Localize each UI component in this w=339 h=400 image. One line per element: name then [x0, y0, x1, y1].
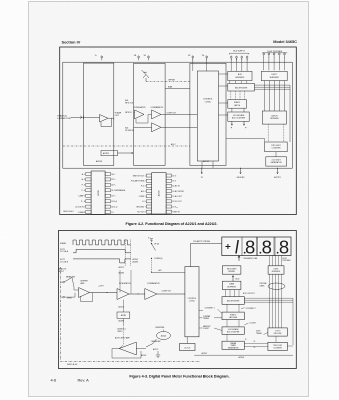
svg-text:BCD: BCD [236, 278, 240, 280]
display digit 1 [236, 240, 238, 254]
svg-text:Section IV: Section IV [62, 39, 81, 44]
svg-text:CONTENT 1: CONTENT 1 [205, 307, 215, 309]
svg-text:OUT: OUT [115, 115, 120, 117]
svg-text:9 C: 9 C [111, 212, 114, 214]
svg-text:16 V₊: 16 V₊ [172, 175, 177, 177]
A22U1 pin 7 left [86, 205, 91, 208]
svg-text:10 Vₐₐₑ: 10 Vₐₐₑ [172, 206, 178, 208]
two digit counter block fig4-3 [268, 342, 287, 350]
IC block A22U2 digital outline [190, 63, 226, 165]
svg-text:INPUT: INPUT [58, 271, 65, 273]
svg-text:+LOFT: +LOFT [98, 285, 105, 287]
wire comparator2 output [161, 126, 197, 128]
svg-text:GROUND: GROUND [237, 177, 246, 179]
A22U1 pin 13 right [105, 189, 110, 192]
wires digit buffers to latch drivers [264, 81, 266, 111]
svg-text:MULTIPLEXER: MULTIPLEXER [235, 87, 248, 89]
svg-text:BCD COUNTER: BCD COUNTER [232, 117, 246, 119]
svg-text:FILTER IN: FILTER IN [125, 130, 134, 132]
svg-text:15 P₃: 15 P₃ [111, 179, 116, 181]
svg-text:DIGIT STROBES: DIGIT STROBES [267, 51, 282, 53]
digit strobe pin 4 [278, 51, 280, 54]
A22U2 pin 2 left [146, 179, 151, 182]
A22U2 pin 13 right [166, 190, 171, 193]
decade counter block fig4-3 [222, 327, 244, 334]
svg-text:12 P₇: 12 P₇ [111, 196, 116, 198]
display polarity plus sign [225, 244, 230, 249]
svg-text:AUTO ZERO AMP: AUTO ZERO AMP [115, 337, 131, 340]
display decimal point 1 [244, 252, 246, 254]
digit strobe pin 5 [284, 51, 286, 54]
svg-text:LINES: LINES [260, 285, 266, 287]
two digit counter block [265, 142, 288, 152]
svg-text:A/D C: A/D C [171, 143, 176, 146]
wire override to Q4 [163, 330, 165, 332]
figure 4-3 frame [59, 231, 297, 369]
digit strobe pin 1 [263, 51, 265, 54]
IC block A22U2 analog outline [134, 63, 166, 165]
svg-text:φ: φ [245, 127, 247, 129]
svg-text:TIMING: TIMING [256, 333, 263, 335]
svg-text:BCD SUPPLY: BCD SUPPLY [233, 50, 246, 52]
wire digit timing [264, 333, 268, 335]
data buffers block [222, 281, 241, 289]
svg-text:P₁₂ 6: P₁₂ 6 [81, 201, 85, 203]
svg-text:A22U2: A22U2 [202, 352, 208, 355]
wire buffer to integrator [90, 292, 118, 294]
svg-text:LOGIC: LOGIC [205, 101, 212, 103]
figure 4-2 frame [60, 47, 297, 215]
svg-text:A/D: A/D [159, 269, 163, 272]
wire flash input [71, 116, 100, 118]
decoder driver block [222, 266, 241, 274]
A22U2 pin 16 right [166, 174, 171, 177]
svg-text:FLASH: FLASH [60, 242, 67, 245]
wire right edge vertical [289, 85, 291, 142]
wire decoder to counter [275, 336, 277, 342]
svg-text:VB: VB [134, 55, 137, 57]
A22U1 pin 6 left [86, 200, 91, 203]
terminal COMM(3) [151, 258, 152, 259]
wire from A22R3 to A22U2 [118, 152, 134, 154]
display digit cell separators [241, 237, 243, 256]
svg-text:7 SEGMENT LINE: 7 SEGMENT LINE [243, 258, 259, 260]
svg-text:VG: VG [202, 55, 205, 57]
svg-text:POLARITY STROBE: POLARITY STROBE [193, 240, 211, 243]
component A22R5 box [117, 312, 130, 318]
svg-text:ZERO: ZERO [118, 331, 124, 333]
svg-text:A22U5: A22U5 [133, 258, 139, 261]
A22U2 pin 15 right [166, 179, 171, 182]
svg-text:COMPARATOR: COMPARATOR [147, 282, 160, 285]
svg-text:DECODE: DECODE [274, 333, 282, 335]
svg-text:1-10 DECADE: 1-10 DECADE [233, 114, 245, 117]
svg-text:Figure 4-3. Digital Panel Met: Figure 4-3. Digital Panel Meter Function… [129, 374, 229, 378]
wire phi lines [244, 343, 268, 345]
BCD supply pin 1 [230, 55, 232, 58]
A22U1 pin 1 left [86, 172, 91, 175]
svg-text:SWITCH OUT 1: SWITCH OUT 1 [133, 175, 146, 177]
A22U1 pin 11 right [105, 200, 110, 203]
A22U2 pin 6 left [146, 200, 151, 203]
svg-text:CONTENT 2: CONTENT 2 [246, 308, 256, 310]
svg-text:14 A 1 IN: 14 A 1 IN [172, 185, 180, 188]
svg-text:INTEGRATOR: INTEGRATOR [119, 282, 131, 285]
BCD supply pin 2 [236, 55, 238, 58]
terminal UP(2) [151, 243, 152, 244]
wire comparator1 output to control logic [161, 113, 197, 115]
bus stub ground [240, 168, 241, 169]
static latches block [222, 312, 244, 320]
svg-text:9 BST IN: 9 BST IN [172, 211, 180, 213]
svg-text:TIMING: TIMING [203, 318, 210, 320]
svg-text:LOGIC: LOGIC [189, 301, 195, 303]
wire control to two digit counter [226, 139, 265, 142]
svg-text:POLARITY BRK 2: POLARITY BRK 2 [131, 180, 146, 183]
A22U1 pin 14 right [105, 183, 110, 186]
wires BCD buffers to multiplexer [229, 81, 231, 84]
svg-text:STATIC: STATIC [230, 313, 237, 316]
A22U1 pin 12 right [105, 194, 110, 197]
svg-text:12 A-C OUT: 12 A-C OUT [172, 195, 183, 198]
svg-text:COMM (3): COMM (3) [154, 258, 163, 260]
A22U1 pin 8 left [86, 211, 91, 214]
pin VSS of control [192, 54, 194, 57]
svg-text:COMP OUT: COMP OUT [167, 112, 178, 114]
switch blade REF [152, 244, 156, 251]
A22U2 pin 11 right [166, 200, 171, 203]
svg-text:TO: TO [201, 177, 204, 179]
wire LO to zero switch [64, 296, 75, 298]
svg-text:14 P₅: 14 P₅ [111, 185, 116, 187]
A22U1 pin 15 right [105, 178, 110, 181]
op-amp comparator 2 [152, 123, 162, 132]
wires latch drivers to two digit counter [267, 124, 269, 142]
digit buffers block fig4-3 [268, 266, 284, 274]
svg-text:A-D 4: A-D 4 [141, 190, 146, 193]
IC package A22U2 body [152, 173, 166, 214]
svg-text:8: 8 [279, 236, 289, 257]
svg-text:8: 8 [262, 236, 272, 257]
svg-text:MEASURE: MEASURE [152, 340, 162, 343]
svg-text:VS: VS [188, 55, 191, 57]
A22U2 pin 7 left [146, 205, 151, 208]
svg-text:MPX IN: MPX IN [125, 112, 132, 114]
decade counter block [228, 112, 249, 121]
A22U2 pin 4 left [146, 190, 151, 193]
wire flash output to A22U2 [108, 117, 114, 119]
svg-text:φ₂: φ₂ [254, 347, 256, 349]
svg-text:DISPLAY TEST: DISPLAY TEST [58, 117, 73, 120]
A22U2 pin 8 left [146, 210, 151, 213]
wire polarity strobe [191, 243, 222, 266]
svg-text:A₁ 1: A₁ 1 [82, 173, 85, 176]
wires multiplexer to static latch [230, 91, 232, 100]
svg-text:MULTIPLEXER: MULTIPLEXER [227, 300, 240, 302]
auto zero feedback loop [112, 349, 141, 359]
svg-text:CONTROL: CONTROL [203, 99, 214, 101]
svg-text:A22U1: A22U1 [96, 160, 103, 163]
wire BCD arrow [232, 276, 234, 282]
svg-text:INTEGRATOR: INTEGRATOR [134, 106, 146, 109]
strobe lines oval [268, 283, 285, 289]
A22U1 pin 5 left [86, 194, 91, 197]
svg-text:CLOCK: CLOCK [184, 347, 191, 349]
svg-text:LATCH: LATCH [271, 114, 278, 117]
buffer feedback loop [81, 293, 93, 302]
display decimal point 2 [260, 252, 262, 254]
svg-text:A22U6: A22U6 [239, 356, 245, 359]
svg-text:DRIVER: DRIVER [228, 271, 235, 273]
digit buffers block [261, 71, 287, 80]
svg-text:A22C3: A22C3 [119, 306, 125, 309]
A22U1 pin 4 left [86, 189, 91, 192]
svg-text:A22Q4: A22Q4 [161, 334, 166, 337]
pin VDD of A22U2 [148, 54, 150, 57]
svg-text:A₂ 2: A₂ 2 [82, 178, 85, 181]
svg-text:RC OUT 8: RC OUT 8 [137, 211, 145, 213]
svg-text:P+2 3: P+2 3 [141, 186, 146, 188]
resistor A22R3 box in U1 bottom [101, 151, 118, 156]
wire compar timing [199, 317, 203, 319]
svg-text:BUFFERS: BUFFERS [272, 271, 281, 273]
svg-text:4-6: 4-6 [51, 378, 57, 383]
A22U2 pin 14 right [166, 184, 171, 187]
svg-text:COMM 8: COMM 8 [78, 212, 85, 214]
bus stub +5V [201, 168, 202, 169]
wire integrator to auto zero [122, 325, 124, 345]
svg-text:BUFFERS: BUFFERS [270, 77, 280, 79]
wire integrator lower network [122, 300, 124, 313]
svg-text:BIAS: BIAS [168, 86, 173, 89]
wires latches to counter [226, 320, 228, 327]
wire control logic to static latch [219, 102, 228, 104]
A22U2 pin 10 right [166, 205, 171, 208]
svg-text:UP (2): UP (2) [154, 243, 160, 245]
wire memory count [199, 327, 203, 329]
wire comm down to A/D node [151, 258, 153, 272]
svg-text:φ₁: φ₁ [245, 338, 247, 340]
svg-text:GENERATOR: GENERATOR [270, 161, 282, 164]
pin VGG of control [206, 54, 208, 57]
wire bias line [165, 88, 190, 90]
strobe bus vertical wires [269, 274, 271, 328]
svg-text:STATIC: STATIC [234, 101, 241, 104]
waveform DUTY CYCLE A trace [73, 249, 131, 253]
svg-text:ZERO: ZERO [67, 298, 73, 300]
wire A/D to control [152, 271, 185, 273]
feedback loop of U1A [101, 118, 112, 126]
wire auto zero to measure switch [136, 348, 146, 350]
svg-text:COUNTER: COUNTER [272, 148, 282, 150]
svg-text:Model 3465C: Model 3465C [273, 39, 297, 44]
multiplexer block fig4-3 [222, 297, 244, 305]
svg-text:V₂ 6: V₂ 6 [142, 201, 145, 203]
A22U1 pin 9 right [105, 211, 110, 214]
svg-text:DRIVERS: DRIVERS [270, 118, 279, 120]
terminal LO [63, 296, 65, 298]
svg-text:BUFFERS: BUFFERS [235, 77, 245, 79]
wire 7 segment line arrow [238, 256, 240, 261]
wire integrator input [133, 112, 136, 114]
svg-text:3465C-B-4-2: 3465C-B-4-2 [63, 211, 73, 213]
svg-text:V+: V+ [95, 55, 97, 57]
svg-text:A22R4: A22R4 [119, 272, 125, 275]
svg-text:LATCHES: LATCHES [229, 316, 238, 319]
svg-text:CYCLE A: CYCLE A [60, 250, 69, 253]
svg-text:A22R3: A22R3 [103, 152, 109, 155]
static latch block [228, 100, 247, 109]
pin V+ of A22U1 [101, 54, 103, 57]
flash oscillator op-amp U1A [100, 115, 109, 123]
A22U1 pin 10 right [105, 205, 110, 208]
wire comparator out to control logic [157, 293, 185, 295]
A22U1 pin 16 right [105, 172, 110, 175]
A22U2 pin 3 left [146, 184, 151, 187]
svg-text:Rev. A: Rev. A [78, 378, 90, 383]
timing generator block [222, 341, 244, 349]
svg-text:STROBES: STROBES [282, 260, 291, 262]
svg-text:A22C2: A22C2 [119, 266, 125, 269]
display decimal point 3 [277, 252, 279, 254]
svg-text:13 OVERRANGE: 13 OVERRANGE [111, 189, 126, 192]
svg-text:A22R4: A22R4 [133, 261, 139, 264]
svg-text:10 B–Q: 10 B–Q [111, 206, 118, 208]
wire counter to generator fig4-3 [226, 334, 228, 341]
wire pins into control box [192, 58, 194, 71]
IC boundary A22U2 bottom line [194, 354, 293, 356]
counter output pins [231, 121, 233, 125]
wire input to buffer [72, 278, 74, 288]
svg-text:φ₂: φ₂ [254, 340, 256, 342]
half digit generator block [266, 157, 287, 166]
A22U1 pin 2 left [86, 178, 91, 181]
svg-text:8: 8 [245, 236, 255, 257]
svg-text:BCD COUNTER: BCD COUNTER [227, 332, 240, 334]
svg-text:A22R6: A22R6 [119, 320, 125, 323]
svg-text:3465C-B-4-6: 3465C-B-4-6 [67, 364, 77, 366]
svg-text:COUNTER: COUNTER [273, 347, 282, 349]
A22U2 pin 12 right [166, 195, 171, 198]
svg-text:GROUND 7: GROUND 7 [136, 206, 146, 208]
wire A/D common dash-dot line [63, 145, 190, 147]
svg-text:16 P₁: 16 P₁ [111, 174, 116, 176]
A22U2 pin 5 left [146, 195, 151, 198]
IC block A22U1 outline [84, 63, 114, 165]
svg-text:A22C5: A22C5 [153, 348, 158, 351]
BCD buffers block [228, 71, 252, 80]
wires display to digit buffers [269, 256, 271, 266]
svg-text:A22U3: A22U3 [141, 354, 146, 357]
A22U2 pin 1 left [146, 174, 151, 177]
ground symbol A22C5 [156, 351, 160, 358]
wire filter input [134, 126, 152, 128]
control logic block [197, 71, 218, 161]
one of five decoder block [268, 328, 287, 336]
wire BCD bus vertical right [292, 298, 294, 345]
wire control bottom to bus [201, 161, 203, 168]
svg-text:COUNT: COUNT [250, 322, 257, 324]
svg-text:GENERATOR: GENERATOR [228, 346, 239, 349]
control logic block fig4-3 [185, 267, 199, 337]
digit strobe pin 2 [268, 51, 270, 54]
wire content1 to static latches [199, 309, 222, 313]
svg-text:BUFFERS: BUFFERS [227, 286, 236, 288]
svg-text:11 NC OUT: 11 NC OUT [172, 201, 182, 203]
svg-text:15 V₋₋: 15 V₋₋ [172, 181, 178, 183]
BCD output bus wires [244, 297, 293, 299]
BCD supply pin 4 [246, 55, 248, 58]
svg-text:COMPARATOR: COMPARATOR [151, 106, 164, 109]
svg-text:OFFSET: OFFSET [168, 79, 176, 81]
svg-text:VD: VD [144, 55, 147, 57]
waveform DUTY CYCLE B trace [73, 259, 131, 263]
wire control logic to BCD buffers [219, 73, 228, 75]
BCD supply pin 3 [241, 55, 243, 58]
svg-text:BCD OUTPUT: BCD OUTPUT [243, 293, 256, 295]
wires multiplexer to static latches [226, 304, 228, 312]
latch drivers block [262, 111, 286, 124]
pin VB of A22U2 [138, 54, 140, 57]
svg-text:φ: φ [231, 127, 233, 129]
svg-text:CLOCK IN 7: CLOCK IN 7 [75, 206, 85, 208]
wire count [244, 323, 248, 325]
svg-text:P₄ 4: P₄ 4 [82, 190, 85, 192]
svg-text:CYCLE B: CYCLE B [60, 262, 69, 264]
terminal HI [63, 281, 65, 283]
wires static latch to counter [231, 108, 233, 112]
waveform FLASH square wave [73, 240, 131, 245]
svg-text:LATCH: LATCH [234, 104, 241, 107]
component A22Q4 oval [157, 332, 171, 340]
wire clock to control logic [186, 337, 188, 344]
wire integrator to comparator [129, 293, 145, 295]
svg-text:DATA: DATA [229, 283, 234, 286]
svg-text:MPX OUT: MPX OUT [125, 103, 134, 105]
svg-text:A22U2: A22U2 [158, 190, 161, 196]
bus stub A22TP1 [277, 168, 278, 169]
wire control logic to counter [219, 114, 228, 116]
clock block [180, 344, 196, 351]
svg-text:P₂ 3: P₂ 3 [82, 185, 85, 187]
wire control logic to multiplexer [219, 85, 228, 87]
svg-text:11 B+Q: 11 B+Q [111, 201, 118, 203]
svg-text:Figure 4-2. Functional Diagra: Figure 4-2. Functional Diagram of A22U1 … [126, 222, 218, 226]
transistor Q1 current source [142, 70, 150, 78]
svg-text:A22U2: A22U2 [203, 160, 210, 163]
svg-text:COMP OUT: COMP OUT [162, 291, 173, 293]
A22U1 pin 3 left [86, 183, 91, 186]
multiplexer block [228, 83, 255, 91]
waveform sync dashed line [124, 240, 126, 267]
digit strobe pin 3 [273, 51, 275, 54]
integrator feedback cap wire [120, 270, 131, 294]
wire content2 [241, 308, 245, 310]
svg-text:A22TP1: A22TP1 [274, 176, 281, 179]
feedback wire integrator [136, 114, 152, 123]
A22U2 pin 9 right [166, 210, 171, 213]
svg-text:13 A 1 FILTER: 13 A 1 FILTER [172, 190, 184, 193]
wire counter output right [287, 345, 293, 347]
guard shield dash-dot boundary [61, 267, 200, 362]
svg-text:COUNT: COUNT [203, 328, 209, 330]
wires multiplexer bus to latch drivers [254, 84, 290, 86]
assembly A22 outer box [63, 62, 292, 168]
svg-text:A22U1: A22U1 [97, 190, 100, 196]
wire current source to offset - dash-dot [145, 78, 147, 82]
wire counter to generator [275, 152, 277, 157]
svg-text:A22R5: A22R5 [121, 314, 126, 317]
